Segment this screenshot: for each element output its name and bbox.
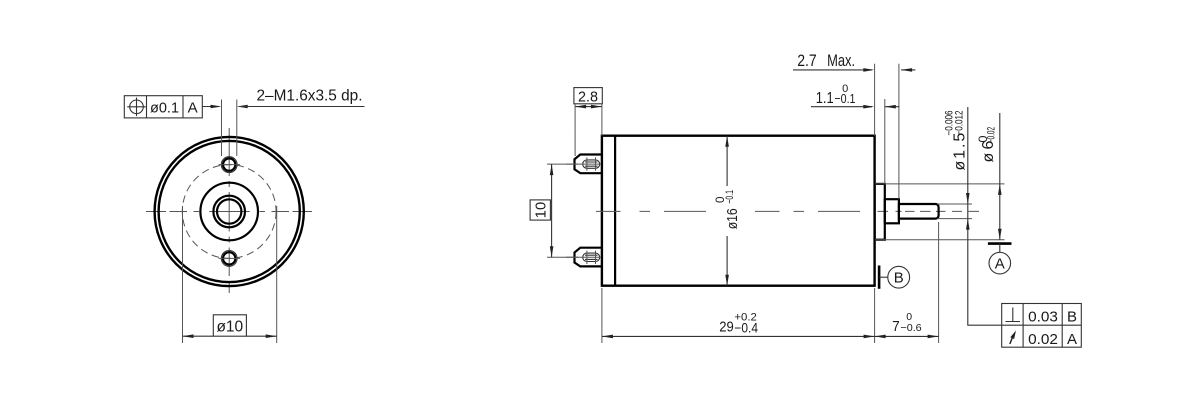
svg-text:0.02: 0.02 xyxy=(1028,331,1058,348)
svg-text:2.8: 2.8 xyxy=(578,89,598,106)
svg-text:10: 10 xyxy=(533,202,550,218)
svg-text:ø16: ø16 xyxy=(724,208,741,229)
svg-text:ø1.5: ø1.5 xyxy=(952,131,969,171)
svg-text:2.7: 2.7 xyxy=(797,52,817,70)
svg-text:29: 29 xyxy=(719,319,734,336)
svg-text:ø0.1: ø0.1 xyxy=(150,100,179,117)
svg-text:A: A xyxy=(995,255,1005,272)
svg-text:0.03: 0.03 xyxy=(1028,308,1058,325)
svg-text:0: 0 xyxy=(978,135,990,142)
svg-text:0: 0 xyxy=(715,197,727,204)
svg-text:A: A xyxy=(1067,331,1077,348)
svg-text:B: B xyxy=(894,270,904,287)
svg-text:−0.4: −0.4 xyxy=(734,320,758,335)
svg-text:A: A xyxy=(188,100,198,117)
svg-text:0: 0 xyxy=(842,83,848,95)
svg-text:−0.012: −0.012 xyxy=(954,111,966,136)
svg-text:ø10: ø10 xyxy=(216,319,243,336)
svg-text:2–M1.6x3.5 dp.: 2–M1.6x3.5 dp. xyxy=(257,87,363,104)
svg-text:Max.: Max. xyxy=(827,52,855,70)
svg-text:−0.6: −0.6 xyxy=(900,322,921,334)
svg-text:1.1: 1.1 xyxy=(816,90,834,107)
svg-text:7: 7 xyxy=(892,318,900,335)
svg-text:B: B xyxy=(1067,308,1077,325)
